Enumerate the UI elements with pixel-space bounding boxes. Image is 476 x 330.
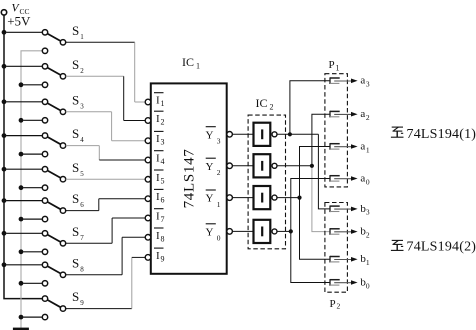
label S7 [72, 224, 84, 242]
label I3 [154, 131, 165, 146]
inverter G3 [254, 186, 278, 209]
wire Y3 to inverter [233, 133, 254, 135]
wire S2 to I2 [66, 76, 146, 120]
node +5V/S6 [2, 198, 7, 203]
svg-text:S: S [72, 255, 79, 270]
switch S7 [6, 231, 65, 255]
svg-text:1: 1 [80, 33, 84, 41]
arrow a1 [351, 144, 358, 149]
svg-text:8: 8 [80, 265, 84, 273]
label I7 [154, 209, 165, 224]
pin I7 bubble [145, 215, 151, 221]
svg-text:S: S [72, 289, 79, 304]
node GND/S2 [19, 82, 24, 87]
wire Y0 to inverter [233, 230, 254, 232]
wire net b3 branch [318, 134, 329, 209]
label IC1 [182, 55, 200, 71]
svg-text:I: I [156, 153, 160, 165]
pin I2 bubble [145, 118, 151, 124]
node +5V/S5 [2, 167, 7, 172]
label a3 [360, 75, 370, 89]
wire S7 to I7 [66, 218, 146, 243]
svg-text:1: 1 [217, 200, 221, 209]
label I9 [154, 248, 165, 263]
wire Y2 to inverter [233, 165, 254, 167]
svg-text:2: 2 [270, 103, 274, 112]
arrow a0 [351, 176, 358, 181]
wire net b2 branch [312, 166, 330, 232]
wire net a0 branch [291, 179, 330, 232]
wire net a3 branch [290, 81, 330, 135]
node +5V/S1 [2, 30, 7, 35]
svg-text:4: 4 [80, 136, 84, 144]
svg-text:6: 6 [161, 196, 165, 205]
label 74LS147 [181, 148, 197, 208]
connector pin a3 [330, 77, 352, 84]
svg-text:4: 4 [161, 157, 165, 166]
switch S4 [6, 133, 65, 157]
label b0 [360, 276, 370, 290]
inverter G1 [254, 123, 278, 146]
svg-text:IC: IC [256, 96, 268, 110]
svg-text:7: 7 [161, 215, 165, 224]
connector P1 box [325, 74, 348, 187]
svg-text:I: I [156, 230, 160, 242]
inverter G4 [254, 220, 278, 243]
svg-text:1: 1 [336, 64, 340, 73]
wire net a2 branch [312, 114, 330, 166]
svg-text:0: 0 [366, 177, 370, 186]
wire G1 output [277, 133, 318, 135]
connector pin b3 [330, 206, 352, 213]
label S4 [72, 126, 84, 144]
svg-text:IC: IC [182, 55, 194, 69]
label Y0 [206, 224, 221, 243]
label Y1 [206, 190, 221, 209]
svg-text:a: a [360, 172, 365, 184]
svg-text:a: a [360, 75, 365, 87]
label P1 [329, 59, 340, 73]
pin I9 bubble [145, 255, 151, 261]
wire Y1 to inverter [233, 197, 254, 199]
svg-text:S: S [72, 57, 79, 72]
node +5V/S3 [2, 99, 7, 104]
svg-text:1: 1 [196, 62, 200, 71]
label b3 [360, 203, 370, 217]
label Y3 [206, 127, 221, 146]
svg-text:I: I [156, 191, 160, 203]
svg-text:3: 3 [366, 80, 370, 89]
svg-text:S: S [72, 23, 79, 38]
svg-text:5: 5 [80, 170, 84, 178]
svg-text:6: 6 [80, 201, 84, 209]
IC U2 dashed box [248, 115, 285, 249]
switch S6 [6, 198, 65, 222]
label IC2 [256, 96, 274, 112]
node +5V/S7 [2, 231, 7, 236]
switch S5 [6, 167, 65, 191]
svg-text:74LS147: 74LS147 [181, 148, 197, 208]
svg-text:3: 3 [161, 138, 165, 147]
svg-text:0: 0 [217, 234, 221, 243]
svg-text:I: I [156, 133, 160, 145]
label S1 [72, 23, 84, 41]
switch S1 [6, 30, 65, 54]
label I8 [154, 228, 165, 243]
pin I8 bubble [145, 235, 151, 241]
svg-text:5: 5 [161, 176, 165, 185]
label S5 [72, 160, 84, 178]
wire G3 output [277, 197, 300, 199]
label I2 [154, 111, 165, 126]
node GND/S8 [19, 281, 24, 286]
svg-text:3: 3 [366, 208, 370, 217]
connector pin b1 [330, 256, 352, 263]
svg-text:9: 9 [161, 254, 165, 263]
svg-text:1: 1 [366, 145, 370, 154]
arrow a2 [351, 112, 358, 117]
pin Y3 bubble [227, 132, 233, 138]
svg-text:Y: Y [206, 193, 214, 205]
svg-text:P: P [329, 59, 335, 71]
wire S6 to I6 [66, 199, 146, 211]
svg-text:I: I [156, 250, 160, 262]
svg-text:1: 1 [161, 99, 165, 108]
arrow b2 [351, 229, 358, 234]
svg-text:2: 2 [80, 67, 84, 75]
connector pin b0 [330, 279, 352, 286]
svg-text:2: 2 [337, 301, 341, 310]
pin I6 bubble [145, 196, 151, 202]
pin Y0 bubble [227, 229, 233, 235]
node GND/S9 [19, 315, 24, 320]
pin Y1 bubble [227, 195, 233, 201]
node GND/S7 [19, 249, 24, 254]
label b2 [360, 226, 370, 240]
switch S3 [6, 99, 65, 123]
label Y2 [206, 158, 221, 177]
label a2 [360, 108, 370, 122]
wire net b0 branch [291, 231, 330, 282]
ground [13, 328, 29, 330]
node +5V/S8 [2, 262, 7, 267]
wire net a1 branch [300, 147, 330, 198]
pin I1 bubble [145, 99, 151, 105]
wire S3 to I3 [66, 112, 146, 141]
svg-text:3: 3 [80, 102, 84, 110]
label zhi 74LS194(2) [391, 239, 476, 254]
svg-text:S: S [72, 160, 79, 175]
svg-text:a: a [360, 108, 365, 120]
connector pin a0 [330, 175, 352, 182]
node +5V/S2 [2, 64, 7, 69]
arrow b0 [351, 280, 358, 285]
wire S5 to I5 [66, 178, 146, 180]
svg-text:S: S [72, 92, 79, 107]
pin I3 bubble [145, 138, 151, 144]
wire S9 to I9 [66, 257, 146, 308]
svg-text:1: 1 [366, 258, 370, 267]
svg-text:a: a [360, 140, 365, 152]
inverter G2 [254, 154, 278, 177]
connector pin a1 [330, 143, 352, 150]
wire net b1 branch [300, 198, 330, 260]
svg-text:3: 3 [217, 137, 221, 146]
wire G2 output [277, 165, 312, 167]
svg-text:74LS194(2): 74LS194(2) [407, 239, 476, 254]
label S8 [72, 255, 84, 273]
svg-text:2: 2 [161, 118, 165, 127]
node G1 junction [288, 132, 292, 136]
node G3 junction [297, 196, 301, 200]
label a0 [360, 172, 370, 186]
label I4 [154, 151, 165, 166]
svg-text:I: I [156, 95, 160, 107]
+5V label [7, 14, 31, 29]
node GND/S6 [19, 217, 24, 222]
svg-text:P: P [330, 298, 336, 310]
label I5 [154, 170, 165, 185]
switch S2 [6, 64, 65, 88]
node +5V/S4 [2, 133, 7, 138]
svg-text:I: I [156, 113, 160, 125]
Vcc terminal [1, 10, 6, 15]
svg-text:S: S [72, 191, 79, 206]
arrow b3 [351, 207, 358, 212]
svg-text:S: S [72, 126, 79, 141]
arrow a3 [351, 79, 358, 84]
label S2 [72, 57, 84, 75]
pin I4 bubble [145, 157, 151, 163]
switch S8 [6, 262, 65, 286]
node GND/S4 [19, 152, 24, 157]
svg-text:9: 9 [80, 299, 84, 307]
label P2 [330, 298, 341, 310]
svg-text:7: 7 [80, 234, 84, 242]
node G4 junction [289, 229, 293, 233]
wire S8 to I8 [66, 237, 146, 274]
label a1 [360, 140, 370, 154]
connector pin b2 [330, 228, 352, 235]
label S3 [72, 92, 84, 110]
pin I5 bubble [145, 177, 151, 183]
label I1 [154, 93, 165, 108]
IC U1 74LS147 box [151, 83, 227, 273]
label S6 [72, 191, 84, 209]
svg-text:Y: Y [206, 129, 214, 141]
svg-text:S: S [72, 224, 79, 239]
svg-text:2: 2 [366, 230, 370, 239]
node G2 junction [310, 164, 314, 168]
svg-text:Y: Y [206, 161, 214, 173]
wire +5V bus [4, 15, 42, 299]
pin Y2 bubble [227, 163, 233, 169]
svg-text:2: 2 [217, 168, 221, 177]
wire ground bus [21, 51, 42, 328]
svg-text:74LS194(1): 74LS194(1) [407, 127, 476, 142]
wire G4 output [277, 230, 291, 232]
Vcc label [12, 3, 30, 16]
node GND/S5 [19, 185, 24, 190]
label S9 [72, 289, 84, 307]
switch S9 [23, 296, 65, 320]
label b1 [360, 253, 370, 267]
svg-text:8: 8 [161, 234, 165, 243]
arrow b1 [351, 257, 358, 262]
wire S1 to I1 [66, 42, 146, 102]
svg-text:2: 2 [366, 113, 370, 122]
wire S4 to I4 [66, 146, 146, 160]
svg-text:0: 0 [366, 281, 370, 290]
connector pin a2 [330, 111, 352, 118]
label zhi 74LS194(1) [391, 127, 476, 142]
svg-text:I: I [156, 172, 160, 184]
svg-text:Y: Y [206, 226, 214, 238]
svg-text:I: I [156, 211, 160, 223]
label I6 [154, 189, 165, 204]
connector P2 box [325, 203, 348, 293]
node GND/S3 [19, 118, 24, 123]
svg-text:+5V: +5V [7, 14, 31, 29]
